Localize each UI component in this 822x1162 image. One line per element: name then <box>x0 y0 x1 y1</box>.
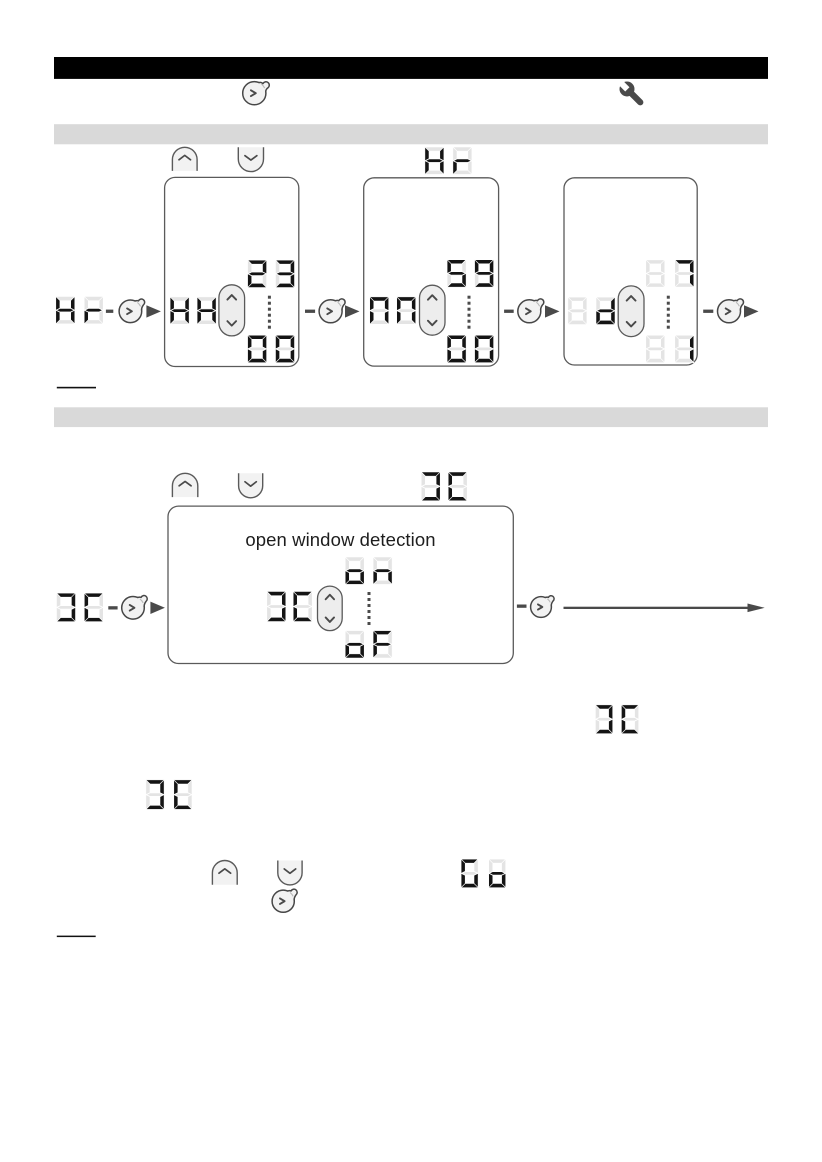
inline 'OC' b digit 2 ('C') <box>174 780 192 810</box>
dash 3 <box>504 310 514 313</box>
inline 'OC' a digit 1 ('J') <box>595 705 612 734</box>
panel 3 '7' value digit 1 ('_') <box>646 260 665 287</box>
footnote underline (bottom) <box>57 936 96 938</box>
panel 1 'HH' digit 1 ('H') <box>170 297 189 324</box>
panel 1 (hour setting) <box>165 177 299 366</box>
dash 2 <box>305 310 315 313</box>
panel 2 (minute setting) <box>364 178 499 366</box>
label 'OC' digit 2 ('C') <box>448 472 467 501</box>
left 'OC' digit 2 ('C') <box>84 593 103 622</box>
panel 'OC' digit 2 ('C') <box>293 592 312 622</box>
inline 'OC' b digit 1 ('J') <box>146 780 164 810</box>
panel 'on' digit 1 ('o') <box>345 557 364 584</box>
panel 3 'd' digit 1 ('d') <box>596 297 615 324</box>
rocker 3 <box>618 286 644 337</box>
dots 4 <box>368 592 371 625</box>
arrow into panel 1 <box>146 305 161 317</box>
dots 3 <box>667 296 670 329</box>
dash 6 <box>517 605 527 608</box>
label 'Hr' digit 2 ('r') <box>453 147 472 174</box>
arrow into big panel <box>150 602 165 614</box>
knob (bottom) <box>272 889 297 912</box>
left 'Hr' digit 2 ('r') <box>84 297 103 324</box>
knob 4 <box>718 299 744 323</box>
knob 5 <box>122 596 148 620</box>
up button icon (section 2) <box>172 473 197 497</box>
knob 6 <box>531 596 555 618</box>
dots 2 <box>468 296 471 329</box>
up button icon (bottom) <box>212 861 237 885</box>
panel 2 '00' digit 2 ('0') <box>475 335 494 362</box>
down button icon (bottom) <box>278 861 302 885</box>
dash 5 <box>108 606 117 609</box>
knob 1 <box>119 299 145 323</box>
arrow into panel 3 <box>545 305 560 317</box>
footnote underline (section 1) <box>57 387 96 389</box>
arrow out of panel 3 <box>744 305 759 317</box>
header black bar <box>54 57 768 79</box>
section 1 grey heading bar <box>54 124 768 144</box>
left 'Hr' digit 1 ('H') <box>56 297 75 324</box>
panel 3 ghost digit digit 1 ('_') <box>568 297 587 324</box>
down button icon (section 1) <box>238 147 263 171</box>
long arrow to the right <box>564 604 765 613</box>
panel 2 'MM' digit 2 ('M') <box>397 297 416 324</box>
panel 1 'HH' digit 2 ('H') <box>197 297 216 324</box>
'Go' digit 1 ('G') <box>461 859 478 888</box>
knob 2 <box>319 299 345 323</box>
rocker 4 <box>318 586 343 631</box>
rocker 2 <box>420 285 446 335</box>
dash 4 <box>703 310 713 313</box>
knob 3 <box>518 299 544 323</box>
panel 2 '59' digit 1 ('5') <box>447 260 466 287</box>
up button icon (section 1) <box>172 147 197 171</box>
panel 'on' digit 2 ('n') <box>373 557 392 584</box>
label 'Hr' digit 1 ('H') <box>425 147 444 174</box>
panel 'oF' digit 1 ('o') <box>345 631 364 658</box>
panel 3 '7' value digit 2 ('7') <box>675 260 694 287</box>
wrench icon <box>615 77 648 110</box>
caption: open window detection <box>168 529 513 551</box>
rocker 1 <box>219 285 245 336</box>
panel 2 '59' digit 2 ('9') <box>475 260 494 287</box>
down button icon (section 2) <box>239 473 263 498</box>
left 'OC' digit 1 ('J') <box>57 593 76 622</box>
panel 1 '00' digit 2 ('0') <box>276 335 295 362</box>
inline 'OC' a digit 2 ('C') <box>621 705 638 734</box>
section 2 grey heading bar <box>54 407 768 427</box>
dash 1 <box>106 310 113 313</box>
arrow into panel 2 <box>345 305 360 317</box>
panel 1 '23' digit 2 ('3') <box>276 260 295 287</box>
panel 3 '1' value digit 2 ('1') <box>675 335 694 362</box>
open window detection panel <box>168 506 513 663</box>
panel 'oF' digit 2 ('F') <box>373 631 392 658</box>
panel 2 '00' digit 1 ('0') <box>447 335 466 362</box>
label 'OC' digit 1 ('J') <box>421 472 440 501</box>
panel 1 '23' digit 1 ('2') <box>248 260 267 287</box>
panel 3 '1' value digit 1 ('_') <box>646 335 665 362</box>
panel 2 'MM' digit 1 ('M') <box>370 297 389 324</box>
panel 3 (day setting) <box>564 178 697 365</box>
knob button icon (header) <box>243 82 270 105</box>
'Go' digit 2 ('o') <box>489 859 506 888</box>
panel 'OC' digit 1 ('J') <box>267 592 286 622</box>
panel 1 '00' digit 1 ('0') <box>248 335 267 362</box>
dots 1 <box>268 296 271 329</box>
